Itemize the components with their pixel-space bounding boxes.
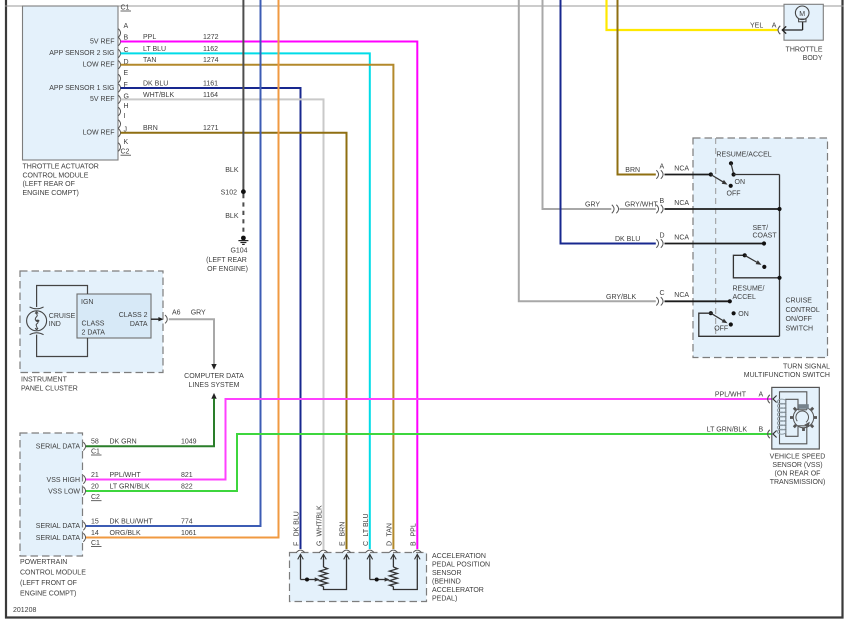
potentiometer R1 (APP sensor 1: G-E track, F wiper)	[301, 559, 347, 590]
wire YEL (top edge to throttle body pin A)	[607, 0, 779, 30]
svg-text:IND: IND	[49, 321, 61, 328]
indicator lamp CRUISE IND	[27, 307, 47, 335]
pin A connector (BRN, NCA)	[625, 163, 689, 178]
svg-text:5V REF: 5V REF	[90, 96, 115, 103]
bus vertical wire	[779, 175, 781, 337]
VSS pin A bracket and arrow (PPL/WHT)	[715, 392, 777, 404]
svg-text:LT GRN/BLK: LT GRN/BLK	[110, 484, 151, 491]
APP sensor pin D (TAN)	[387, 523, 398, 567]
wire GRY (A6 to computer data lines)	[169, 319, 214, 364]
connector C2 label (TACM bottom)	[121, 149, 132, 156]
module INSTRUMENT PANEL CLUSTER (dashed box)	[20, 271, 163, 373]
ground G104	[206, 236, 248, 273]
wiper junction dot and arrow (pin F)	[305, 578, 309, 582]
svg-text:C1: C1	[91, 449, 100, 456]
svg-text:DK BLU: DK BLU	[294, 511, 301, 536]
cruise control switch caption	[786, 298, 820, 333]
svg-text:5V REF: 5V REF	[90, 38, 115, 45]
svg-text:PPL/WHT: PPL/WHT	[110, 472, 142, 479]
connector C2 label (PCM middle)	[91, 494, 102, 501]
svg-text:I: I	[124, 113, 126, 120]
motor M (throttle body)	[795, 6, 809, 22]
wire DK BLU 1161 (U1 pin F to APP sensor pin F)	[121, 88, 301, 549]
svg-text:821: 821	[181, 472, 193, 479]
arrow down to computer data lines system	[211, 364, 216, 370]
svg-text:ENGINE COMPT): ENGINE COMPT)	[23, 190, 79, 197]
svg-text:(LEFT FRONT OF: (LEFT FRONT OF	[20, 580, 77, 587]
svg-text:C1: C1	[121, 5, 130, 12]
svg-text:VSS LOW: VSS LOW	[48, 488, 80, 495]
svg-text:A: A	[660, 163, 665, 170]
svg-text:OFF: OFF	[714, 326, 728, 333]
svg-text:THROTTLE ACTUATOR: THROTTLE ACTUATOR	[23, 164, 99, 171]
VSS coil winding	[777, 399, 786, 434]
wire lamp bottom to class2 box	[37, 335, 88, 357]
svg-text:OF ENGINE): OF ENGINE)	[207, 266, 248, 273]
svg-text:DK BLU: DK BLU	[615, 236, 640, 243]
svg-text:(ON REAR OF: (ON REAR OF	[775, 471, 821, 478]
svg-text:LT BLU: LT BLU	[143, 46, 166, 53]
module APP ACCELERATION PEDAL POSITION SENSOR (dashed box)	[290, 553, 427, 602]
svg-text:TAN: TAN	[387, 523, 394, 536]
APP sensor pin F (DK BLU)	[294, 511, 305, 579]
APP sensor pin C (LT BLU)	[363, 513, 374, 579]
svg-text:A: A	[759, 392, 764, 399]
svg-text:POWERTRAIN: POWERTRAIN	[20, 559, 67, 566]
svg-text:C2: C2	[121, 149, 130, 156]
module TURN SIGNAL MULTIFUNCTION SWITCH (dashed box)	[693, 138, 828, 358]
wire DK BLU (top edge down to multifunction switch pin D)	[561, 0, 656, 244]
svg-text:D: D	[387, 541, 394, 546]
splice S102	[221, 189, 246, 196]
svg-text:VEHICLE SPEED: VEHICLE SPEED	[770, 454, 826, 461]
wire ORG/BLK 1061 (top edge down to PCM pin 14)	[86, 0, 279, 538]
IPC inner CLASS 2 DATA box	[77, 294, 151, 338]
svg-text:DK GRN: DK GRN	[110, 439, 137, 446]
wire label PPL 1272	[143, 34, 219, 41]
module U1 internal labels	[49, 38, 114, 136]
svg-text:THROTTLE: THROTTLE	[786, 47, 823, 54]
PCM pin cavity brackets	[83, 442, 85, 542]
wire BLK (vertical to splice S102)	[242, 0, 244, 192]
VSS reluctor wheel	[790, 404, 817, 431]
svg-text:201208: 201208	[13, 607, 36, 614]
svg-text:1272: 1272	[203, 34, 219, 41]
svg-text:BLK: BLK	[225, 213, 239, 220]
svg-text:RESUME/ACCEL: RESUME/ACCEL	[716, 152, 771, 159]
svg-text:21: 21	[91, 472, 99, 479]
svg-text:PPL: PPL	[143, 34, 156, 41]
svg-text:NCA: NCA	[674, 165, 689, 172]
svg-text:RESUME/: RESUME/	[733, 285, 765, 292]
svg-text:BRN: BRN	[625, 167, 640, 174]
wire BRN (top edge down to multifunction switch pin A)	[618, 0, 656, 175]
svg-text:BRN: BRN	[143, 125, 158, 132]
connector C1 label (PCM bottom)	[91, 540, 102, 547]
wire TAN 1274 (U1 pin D to APP sensor pin D)	[121, 65, 394, 549]
wire pin B to bus junction	[665, 208, 780, 210]
svg-text:1164: 1164	[203, 92, 218, 99]
wire label BRN 1271	[143, 125, 219, 132]
svg-text:BODY: BODY	[803, 55, 823, 62]
svg-text:15: 15	[91, 519, 99, 526]
switch SW3 on/off (bottom)	[699, 285, 780, 336]
svg-text:IGN: IGN	[81, 299, 93, 306]
svg-text:CONTROL: CONTROL	[786, 307, 820, 314]
module THROTTLE BODY box	[784, 4, 823, 40]
svg-text:COAST: COAST	[753, 233, 778, 240]
svg-text:TRANSMISSION): TRANSMISSION)	[770, 479, 826, 486]
pin cavity brackets of U1	[118, 29, 120, 151]
APP sensor caption	[432, 553, 490, 603]
wire pin C to resume/accel contact	[665, 300, 730, 302]
switch SW1 resume/accel-on-off (top)	[709, 152, 772, 198]
wire label YEL and pin A	[750, 23, 777, 30]
wire label LT BLU 1162	[143, 46, 218, 53]
svg-text:GRY/WHT: GRY/WHT	[625, 202, 659, 209]
throttle body pin A bracket and arrow	[778, 22, 803, 34]
svg-text:GRY: GRY	[585, 202, 600, 209]
pin B connector (GRY/WHT, NCA)	[585, 198, 689, 213]
svg-text:ACCEL: ACCEL	[733, 294, 756, 301]
svg-text:SERIAL DATA: SERIAL DATA	[36, 523, 81, 530]
svg-text:CONTROL MODULE: CONTROL MODULE	[23, 172, 89, 179]
svg-text:BLK: BLK	[225, 167, 239, 174]
svg-text:CLASS 2: CLASS 2	[119, 312, 148, 319]
svg-text:G104: G104	[230, 247, 247, 254]
svg-text:ACCELERATION: ACCELERATION	[432, 553, 486, 560]
svg-text:1162: 1162	[203, 46, 218, 53]
svg-text:NCA: NCA	[674, 200, 689, 207]
svg-text:B: B	[759, 427, 764, 434]
node COMPUTER DATA LINES SYSTEM	[184, 373, 244, 389]
junction dot (bus / pin B wire)	[777, 207, 781, 211]
svg-text:1061: 1061	[181, 530, 197, 537]
svg-text:PPL: PPL	[410, 523, 417, 536]
svg-text:SENSOR (VSS): SENSOR (VSS)	[772, 462, 822, 469]
svg-text:BRN: BRN	[340, 522, 347, 537]
svg-text:DK BLU: DK BLU	[143, 81, 168, 88]
connector C1 label (PCM top)	[91, 449, 102, 456]
wire PPL/WHT 821 (PCM pin 21 to VSS pin A)	[86, 399, 780, 480]
VSS caption	[770, 454, 826, 487]
wire label WHT/BLK 1164	[143, 92, 218, 99]
IPC output pin A6 with arrow and bracket	[151, 309, 206, 323]
wire DK GRN 1049 (PCM pin 58 to computer data lines)	[86, 398, 214, 446]
wire label TAN 1274	[143, 57, 219, 64]
svg-text:M: M	[799, 11, 805, 18]
svg-text:58: 58	[91, 439, 99, 446]
svg-text:774: 774	[181, 519, 193, 526]
svg-text:PEDAL POSITION: PEDAL POSITION	[432, 561, 490, 568]
svg-text:C: C	[660, 290, 665, 297]
pin C connector (GRY/BLK, NCA)	[606, 290, 689, 305]
svg-text:APP SENSOR 2 SIG: APP SENSOR 2 SIG	[49, 50, 114, 57]
svg-text:PPL/WHT: PPL/WHT	[715, 392, 747, 399]
svg-text:A6: A6	[172, 309, 181, 316]
svg-text:G: G	[317, 541, 324, 546]
svg-text:COMPUTER DATA: COMPUTER DATA	[184, 373, 244, 380]
svg-text:CONTROL MODULE: CONTROL MODULE	[20, 570, 86, 577]
svg-text:C: C	[363, 541, 370, 546]
junction dot (bus / SW2)	[777, 276, 781, 280]
svg-text:A: A	[124, 23, 129, 30]
svg-text:822: 822	[181, 484, 193, 491]
svg-text:1274: 1274	[203, 57, 219, 64]
wire BLK (dashed, S102 to G104)	[242, 194, 244, 232]
svg-text:ENGINE COMPT): ENGINE COMPT)	[20, 591, 76, 598]
wire WHT/BLK 1164 (U1 pin G to APP sensor pin G)	[121, 99, 324, 549]
svg-text:(BEHIND: (BEHIND	[432, 578, 461, 585]
svg-text:CRUISE: CRUISE	[49, 313, 76, 320]
svg-text:LINES SYSTEM: LINES SYSTEM	[189, 382, 240, 389]
pin letters A-K of U1	[124, 23, 129, 146]
svg-text:PEDAL): PEDAL)	[432, 595, 457, 602]
svg-text:(LEFT REAR OF: (LEFT REAR OF	[23, 181, 75, 188]
svg-text:YEL: YEL	[750, 23, 763, 30]
svg-text:2 DATA: 2 DATA	[82, 329, 106, 336]
svg-text:WHT/BLK: WHT/BLK	[143, 92, 174, 99]
svg-text:A: A	[772, 23, 777, 30]
svg-text:E: E	[124, 70, 129, 77]
wiper junction dot and arrow (pin C)	[375, 578, 379, 582]
svg-text:SERIAL DATA: SERIAL DATA	[36, 444, 81, 451]
svg-text:INSTRUMENT: INSTRUMENT	[21, 377, 68, 384]
APP sensor pin B (PPL)	[410, 523, 421, 560]
wire lamp top to IGN	[37, 286, 88, 308]
switch SW2 set/coast (middle)	[733, 225, 779, 278]
wire SW1 to bus	[734, 174, 780, 176]
svg-text:ON: ON	[738, 311, 749, 318]
svg-text:1049: 1049	[181, 439, 197, 446]
svg-text:WHT/BLK: WHT/BLK	[317, 505, 324, 536]
svg-text:C1: C1	[91, 540, 100, 547]
svg-text:E: E	[340, 541, 347, 546]
svg-text:B: B	[660, 198, 665, 205]
svg-text:DATA: DATA	[130, 321, 148, 328]
module U1 THROTTLE ACTUATOR CONTROL MODULE box	[23, 6, 119, 160]
svg-text:B: B	[410, 541, 417, 546]
pin D connector (DK BLU, NCA)	[615, 232, 689, 247]
svg-text:GRY/BLK: GRY/BLK	[606, 294, 637, 301]
svg-text:1271: 1271	[203, 125, 219, 132]
wire LT GRN/BLK 822 (PCM pin 20 to VSS pin B)	[86, 434, 780, 491]
svg-text:GRY: GRY	[191, 309, 206, 316]
svg-text:(LEFT REAR: (LEFT REAR	[206, 257, 247, 264]
wire BRN 1271 (U1 pin J to APP sensor pin E)	[121, 133, 347, 549]
wire label DK BLU 1161	[143, 81, 218, 88]
svg-text:MULTIFUNCTION SWITCH: MULTIFUNCTION SWITCH	[744, 372, 830, 379]
internal dashed divider	[715, 138, 717, 337]
svg-text:NCA: NCA	[674, 234, 689, 241]
svg-text:K: K	[124, 139, 129, 146]
PCM pin labels	[36, 444, 81, 542]
svg-text:H: H	[124, 103, 129, 110]
svg-text:PANEL CLUSTER: PANEL CLUSTER	[21, 385, 78, 392]
svg-text:SET/: SET/	[753, 225, 769, 232]
svg-text:LOW REF: LOW REF	[83, 130, 115, 137]
wire GRY/BLK (top edge down to multifunction switch pin C)	[519, 0, 656, 301]
svg-text:C2: C2	[91, 494, 100, 501]
wire GRY / GRY/WHT (top edge down to multifunction switch pin B)	[543, 0, 612, 209]
svg-text:NCA: NCA	[674, 292, 689, 299]
svg-text:ON: ON	[735, 179, 746, 186]
connector C1 label (TACM top)	[121, 5, 132, 12]
arrow up from DK GRN wire	[211, 393, 216, 399]
svg-text:F: F	[294, 542, 301, 546]
svg-text:LOW REF: LOW REF	[83, 62, 115, 69]
wire GRY/WHT segment to pin B	[620, 208, 656, 210]
APP sensor pin G (WHT/BLK)	[317, 505, 328, 567]
IPC caption	[21, 377, 78, 393]
wire PPL 1272 (U1 pin B to APP sensor pin B)	[121, 42, 418, 550]
APP sensor pin E (BRN)	[340, 522, 351, 560]
svg-text:ON/OFF: ON/OFF	[786, 316, 812, 323]
module VEHICLE SPEED SENSOR box	[772, 387, 820, 449]
svg-text:LT GRN/BLK: LT GRN/BLK	[707, 427, 748, 434]
VSS pickup coil core	[780, 392, 807, 444]
PCM pin numbers and wire labels	[91, 439, 197, 538]
svg-text:SENSOR: SENSOR	[432, 570, 462, 577]
throttle body caption	[786, 47, 823, 62]
wire pin D to SET/COAST contact	[665, 243, 765, 245]
wire LT BLU 1162 (U1 pin C to APP sensor pin C)	[121, 53, 370, 549]
svg-text:DK BLU/WHT: DK BLU/WHT	[110, 519, 154, 526]
svg-text:D: D	[660, 232, 665, 239]
svg-text:CLASS: CLASS	[82, 321, 105, 328]
svg-text:20: 20	[91, 484, 99, 491]
svg-text:ORG/BLK: ORG/BLK	[110, 530, 141, 537]
svg-text:VSS HIGH: VSS HIGH	[47, 477, 80, 484]
svg-text:LT BLU: LT BLU	[363, 513, 370, 536]
wire DK BLU/WHT 774 (top edge down to PCM pin 15)	[86, 0, 261, 526]
U1 module caption	[23, 164, 99, 197]
svg-text:SWITCH: SWITCH	[786, 325, 814, 332]
svg-text:1161: 1161	[203, 81, 218, 88]
svg-text:TURN SIGNAL: TURN SIGNAL	[783, 363, 830, 370]
svg-text:APP SENSOR 1 SIG: APP SENSOR 1 SIG	[49, 85, 114, 92]
svg-text:ACCELERATOR: ACCELERATOR	[432, 587, 484, 594]
inline connector on GRY wire	[612, 205, 619, 213]
potentiometer R2 (APP sensor 2: D-B track, C wiper)	[370, 559, 418, 590]
module POWERTRAIN CONTROL MODULE (dashed box)	[20, 433, 83, 556]
svg-text:S102: S102	[221, 190, 237, 197]
svg-text:CRUISE: CRUISE	[786, 298, 813, 305]
VSS pin B bracket and arrow (LT GRN/BLK)	[707, 427, 777, 439]
svg-text:SERIAL DATA: SERIAL DATA	[36, 535, 81, 542]
svg-text:14: 14	[91, 530, 99, 537]
svg-text:OFF: OFF	[727, 191, 741, 198]
svg-text:TAN: TAN	[143, 57, 156, 64]
PCM caption	[20, 559, 86, 598]
wire pin A to switch common	[665, 174, 711, 176]
multifunction switch caption	[744, 363, 830, 379]
